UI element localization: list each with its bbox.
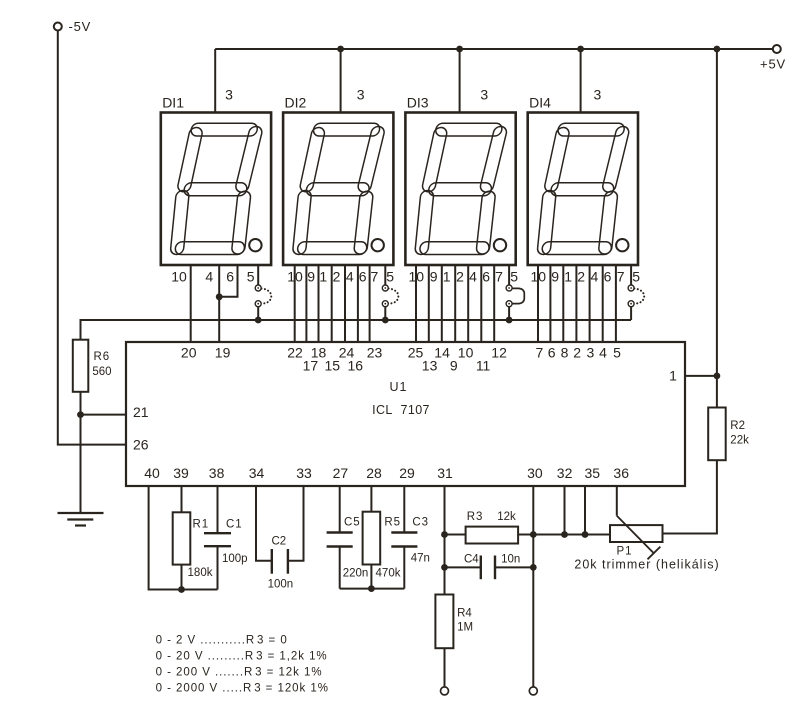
- svg-text:7: 7: [536, 344, 544, 360]
- capacitor C5: [327, 531, 353, 533]
- svg-text:22k: 22k: [730, 435, 749, 447]
- wire R5 bottom: [370, 565, 372, 589]
- wire DI4 pin 6 to IC: [602, 265, 604, 342]
- junction pin32 / R3 wire: [561, 531, 568, 538]
- svg-text:17: 17: [303, 357, 319, 373]
- wire DI3 pin 7 to IC: [493, 265, 495, 342]
- svg-text:10: 10: [531, 269, 547, 285]
- wire DI3 pin 2 to IC: [454, 265, 456, 342]
- svg-text:31: 31: [437, 465, 453, 481]
- wire DI3 pin 1 to IC: [441, 265, 443, 342]
- svg-text:40: 40: [144, 465, 160, 481]
- resistor R1: [173, 512, 191, 564]
- resistor R2: [708, 408, 726, 461]
- wire decimal-point rail to R6: [81, 320, 632, 340]
- svg-text:0 - 200 V .......R 3 = 12k 1%: 0 - 200 V .......R 3 = 12k 1%: [156, 667, 323, 679]
- svg-text:C2: C2: [271, 535, 286, 547]
- wire C2 to U1 pin 33: [288, 486, 304, 561]
- svg-text:R 1: R 1: [193, 519, 209, 531]
- svg-text:0 - 2 V ...........R 3 = 0: 0 - 2 V ...........R 3 = 0: [156, 635, 288, 647]
- svg-text:20: 20: [181, 344, 197, 360]
- svg-text:U 1: U 1: [389, 380, 406, 394]
- wire U1 pin 29 to C3: [403, 486, 405, 533]
- svg-text:7: 7: [495, 269, 503, 285]
- wire U1 pin 27 to C5: [339, 486, 341, 533]
- wire DI4 pin 9 to IC: [549, 265, 551, 342]
- wire R1 bottom: [181, 565, 183, 590]
- svg-text:100p: 100p: [222, 553, 248, 565]
- svg-text:10n: 10n: [501, 554, 520, 566]
- svg-text:29: 29: [399, 465, 415, 481]
- ground: [58, 512, 104, 514]
- wire DI1 pin 5 stub: [257, 265, 259, 285]
- junction DI2 pin3 on +5V rail: [337, 46, 344, 53]
- wire U1 pin 35: [584, 486, 586, 535]
- svg-text:1: 1: [443, 269, 451, 285]
- svg-text:4: 4: [591, 269, 599, 285]
- wire DI2 decimal jumper to dp rail: [384, 307, 386, 320]
- wire R6 to ground: [80, 392, 82, 513]
- wire pin31 to R3: [445, 534, 466, 536]
- svg-text:2: 2: [577, 269, 585, 285]
- svg-text:47n: 47n: [411, 553, 430, 565]
- wire R1/C1 bottom bus: [0, 0, 1, 1]
- wire DI3 pin 6 to IC: [480, 265, 482, 342]
- jumper DI3 decimal point (closed): [506, 285, 524, 307]
- wire R2 bottom to P1: [663, 460, 717, 533]
- svg-text:1: 1: [669, 368, 677, 384]
- wire DI1 pins 4+6 to IC pin 19: [218, 297, 220, 342]
- wire U1 pin 30 to input terminal: [532, 486, 534, 687]
- wire C5 bottom: [339, 547, 341, 589]
- display DI1: [161, 113, 271, 266]
- capacitor C1: [204, 532, 231, 534]
- P1 trimmer tick: [648, 547, 661, 560]
- wire U1 pin 21: [81, 414, 127, 416]
- svg-text:470k: 470k: [376, 568, 401, 580]
- svg-text:5: 5: [510, 269, 518, 285]
- wire DI4 pin 4 to IC: [589, 265, 591, 342]
- svg-text:5: 5: [632, 269, 640, 285]
- svg-text:0 - 20 V .........R 3 = 1,2k: 0 - 20 V .........R 3 = 1,2k 1%: [156, 651, 328, 663]
- potentiometer P1 (trimmer): [610, 525, 663, 542]
- svg-text:180k: 180k: [188, 567, 213, 579]
- svg-text:36: 36: [613, 465, 629, 481]
- wire DI2 pin 4 to IC: [344, 265, 346, 342]
- svg-text:7: 7: [617, 269, 625, 285]
- svg-text:26: 26: [133, 437, 149, 453]
- wire DI3 pin3 drop: [459, 49, 461, 113]
- svg-text:2: 2: [333, 269, 341, 285]
- junction pin31 / C4: [441, 564, 448, 571]
- svg-text:10: 10: [171, 269, 187, 285]
- wire DI1 pin 4: [218, 265, 220, 297]
- svg-text:R 3: R 3: [467, 511, 483, 523]
- svg-text:4: 4: [346, 269, 354, 285]
- svg-text:16: 16: [348, 357, 364, 373]
- wire DI3 pin 9 to IC: [428, 265, 430, 342]
- wire DI4 pin 5 stub: [630, 265, 632, 285]
- svg-text:21: 21: [133, 404, 149, 420]
- svg-text:1: 1: [564, 269, 572, 285]
- junction DI1 dp on rail: [255, 317, 262, 324]
- wire DI2 pin 2 to IC: [331, 265, 333, 342]
- junction DI4 pin3 on +5V rail: [577, 46, 584, 53]
- wire U1 pin 34 to C2: [256, 486, 272, 561]
- svg-text:P 1: P 1: [616, 545, 631, 557]
- svg-text:9: 9: [450, 357, 458, 373]
- terminal input high: [529, 687, 537, 695]
- svg-text:12: 12: [491, 344, 507, 360]
- svg-text:5: 5: [386, 269, 394, 285]
- resistor R4: [435, 595, 453, 649]
- wire DI2 pin 9 to IC: [305, 265, 307, 342]
- svg-text:34: 34: [249, 465, 265, 481]
- wire DI1 decimal jumper to dp rail: [257, 307, 259, 320]
- svg-text:6: 6: [482, 269, 490, 285]
- wire DI2 pin 1 to IC: [318, 265, 320, 342]
- svg-text:11: 11: [476, 357, 491, 373]
- junction DI2 dp on rail: [382, 317, 389, 324]
- wire U1 pin 36 to wiper: [616, 486, 618, 516]
- svg-text:6: 6: [604, 269, 612, 285]
- junction R1 bottom: [178, 586, 185, 593]
- wire R3 to P1: [518, 534, 610, 536]
- junction pin30 / R3 wire: [530, 531, 537, 538]
- junction pin35 / R3 wire: [582, 531, 589, 538]
- svg-text:27: 27: [333, 465, 349, 481]
- wire +5V rail to R2 / pin 1 vertical: [716, 49, 718, 408]
- svg-text:1: 1: [319, 269, 327, 285]
- terminal +5V: [773, 45, 781, 53]
- wire C5/R5/C3 bottom bus: [340, 588, 405, 590]
- svg-text:35: 35: [585, 465, 601, 481]
- svg-text:10: 10: [287, 269, 303, 285]
- svg-text:6: 6: [359, 269, 367, 285]
- svg-text:10: 10: [409, 269, 425, 285]
- svg-text:2: 2: [456, 269, 464, 285]
- resistor R5: [363, 512, 381, 565]
- capacitor C4: [480, 556, 482, 580]
- display DI2: [283, 113, 393, 266]
- svg-text:+5V: +5V: [760, 57, 786, 72]
- wire U1 pin 39 to R1: [181, 486, 183, 512]
- wire DI4 pin 10 to IC: [537, 265, 539, 342]
- svg-text:23: 23: [367, 344, 383, 360]
- svg-text:4: 4: [599, 344, 607, 360]
- display DI4: [528, 113, 638, 266]
- svg-text:ICL 7107: ICL 7107: [372, 403, 430, 417]
- svg-text:C 3: C 3: [412, 516, 428, 528]
- svg-text:C4: C4: [464, 554, 479, 566]
- svg-text:6: 6: [548, 344, 556, 360]
- svg-text:3: 3: [587, 344, 595, 360]
- svg-text:7: 7: [371, 269, 379, 285]
- svg-text:19: 19: [215, 344, 231, 360]
- svg-text:4: 4: [469, 269, 477, 285]
- svg-text:9: 9: [307, 269, 315, 285]
- svg-text:DI1: DI1: [162, 95, 184, 111]
- wire U1 pin 32: [564, 486, 566, 535]
- wire U1 pin 40: [149, 486, 218, 590]
- wire DI4 pin 1 to IC: [562, 265, 564, 342]
- wire C3 bottom: [403, 547, 405, 589]
- wire DI4 pin3 drop: [580, 49, 582, 113]
- wire C4 to pin30 column: [495, 566, 533, 568]
- svg-text:2: 2: [573, 344, 581, 360]
- wire DI2 pin 7 to IC: [369, 265, 371, 342]
- wire U1 pin 38 to C1: [217, 486, 219, 533]
- svg-text:5: 5: [247, 269, 255, 285]
- wire pin31 to C4: [445, 566, 481, 568]
- op-amp/IC U1 box ICL 7107: [126, 342, 685, 486]
- wire DI2 pin 10 to IC: [294, 265, 296, 342]
- junction R5 bottom: [368, 585, 375, 592]
- svg-text:38: 38: [209, 465, 225, 481]
- svg-text:13: 13: [422, 357, 438, 373]
- svg-text:12k: 12k: [497, 511, 516, 523]
- svg-text:R 5: R 5: [384, 516, 400, 528]
- jumper DI4 decimal point (open): [628, 285, 644, 307]
- svg-text:3: 3: [357, 87, 365, 103]
- svg-text:39: 39: [173, 465, 189, 481]
- junction R6 / pin 21: [77, 411, 84, 418]
- wire R4 to input terminal: [444, 648, 446, 687]
- svg-text:32: 32: [557, 465, 573, 481]
- svg-text:33: 33: [296, 465, 312, 481]
- svg-text:R4: R4: [457, 608, 472, 620]
- wire DI4 pin 7 to IC: [615, 265, 617, 342]
- svg-text:30: 30: [527, 465, 543, 481]
- svg-text:8: 8: [561, 344, 569, 360]
- svg-text:3: 3: [480, 87, 488, 103]
- svg-text:3: 3: [225, 87, 233, 103]
- wire DI4 pin 2 to IC: [575, 265, 577, 342]
- display DI3: [405, 113, 515, 266]
- svg-text:28: 28: [366, 465, 382, 481]
- wire DI1 pin 10 to IC pin 20: [190, 265, 192, 342]
- svg-text:C 5: C 5: [344, 516, 360, 528]
- junction DI1 pins 4+6: [216, 293, 223, 300]
- jumper DI1 decimal point (open): [255, 285, 271, 307]
- svg-text:1M: 1M: [457, 622, 473, 634]
- svg-text:3: 3: [594, 87, 602, 103]
- wire -5V vertical to pin 26: [58, 31, 126, 445]
- wire U1 pin 31 down: [444, 486, 446, 595]
- svg-text:22: 22: [287, 344, 303, 360]
- junction R2 branch on +5V rail: [714, 46, 721, 53]
- svg-text:R 6: R 6: [94, 351, 110, 363]
- junction DI3 dp on rail: [506, 317, 513, 324]
- svg-text:220n: 220n: [343, 568, 369, 580]
- svg-text:C 1: C 1: [226, 519, 242, 531]
- svg-text:9: 9: [551, 269, 559, 285]
- svg-text:-5V: -5V: [69, 19, 92, 34]
- resistor R3: [466, 527, 518, 544]
- svg-text:DI3: DI3: [407, 95, 429, 111]
- wire DI2 pin 6 to IC: [357, 265, 359, 342]
- wire U1 pin 28 to R5: [370, 486, 372, 512]
- wire DI1 pin 6 joins pin 4: [219, 265, 237, 297]
- jumper DI2 decimal point (open): [382, 285, 398, 307]
- wire DI2 pin3 drop: [340, 49, 342, 113]
- svg-text:100n: 100n: [268, 578, 294, 590]
- svg-text:9: 9: [430, 269, 438, 285]
- svg-text:20k trimmer (helikális): 20k trimmer (helikális): [574, 558, 719, 572]
- svg-text:DI2: DI2: [285, 95, 307, 111]
- capacitor C2: [271, 549, 273, 574]
- svg-text:560: 560: [92, 366, 111, 378]
- junction pin 1 / R2 line: [714, 373, 721, 380]
- wire DI1 pin3 drop: [214, 49, 216, 113]
- capacitor C3: [391, 531, 417, 533]
- svg-text:10: 10: [458, 344, 474, 360]
- wire DI4 decimal jumper to dp rail: [630, 307, 632, 320]
- resistor R6: [73, 340, 89, 392]
- wire DI2 pin 5 stub: [384, 265, 386, 285]
- terminal input low: [441, 687, 449, 695]
- wire DI3 pin 5 stub: [508, 265, 510, 285]
- svg-text:5: 5: [613, 344, 621, 360]
- wire DI3 pin 10 to IC: [415, 265, 417, 342]
- P1 wiper diagonal: [617, 516, 655, 554]
- svg-text:15: 15: [325, 357, 341, 373]
- svg-text:0 - 2000 V .....R 3 = 120k 1%: 0 - 2000 V .....R 3 = 120k 1%: [156, 683, 329, 695]
- wire U1 pin 1: [685, 375, 717, 377]
- junction DI3 pin3 on +5V rail: [456, 46, 463, 53]
- svg-text:6: 6: [226, 269, 234, 285]
- svg-text:DI4: DI4: [529, 95, 551, 111]
- wire C1 bottom: [217, 546, 219, 589]
- svg-text:R2: R2: [730, 420, 745, 432]
- svg-text:4: 4: [205, 269, 213, 285]
- terminal -5V: [54, 23, 62, 31]
- junction pin31 / R3: [441, 531, 448, 538]
- wire +5V top rail: [215, 48, 773, 50]
- wire DI3 pin 4 to IC: [467, 265, 469, 342]
- wire DI3 decimal jumper to dp rail: [508, 307, 510, 320]
- junction pin30 / C4 wire: [530, 564, 537, 571]
